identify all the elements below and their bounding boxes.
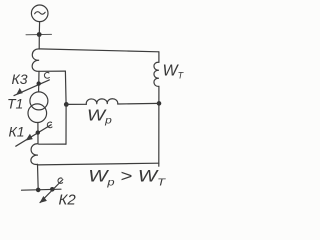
wire Wp right segment xyxy=(118,102,159,105)
inner branch top wire xyxy=(39,70,65,72)
bus bar terminal xyxy=(26,33,52,35)
switch K2 blade xyxy=(40,180,63,203)
K3 arrowhead xyxy=(16,88,22,94)
K2 arrowhead xyxy=(40,197,46,203)
junction dot bottom main xyxy=(36,188,41,193)
switch K1 blade xyxy=(16,125,51,147)
K2 hinge hook xyxy=(58,178,63,183)
bottom wire right to main xyxy=(38,163,159,165)
K1 hinge hook xyxy=(47,122,52,128)
AC source generator circle xyxy=(31,5,48,22)
junction dot inner Wp xyxy=(64,102,69,107)
svg-text:Т1: Т1 xyxy=(7,96,23,112)
junction dot bus xyxy=(37,32,42,37)
right wire down to coil xyxy=(158,52,160,63)
junction dot right Wp xyxy=(157,101,162,106)
K1 arrowhead xyxy=(26,134,32,140)
svg-text:Wp: Wp xyxy=(87,106,112,126)
wire T1 to K1 to winding xyxy=(37,123,39,144)
K3 hinge hook xyxy=(44,72,49,78)
switch K3 blade xyxy=(14,80,49,96)
wire source to bus xyxy=(38,22,40,35)
right wire coil to bottom corner xyxy=(158,86,160,166)
svg-text:К3: К3 xyxy=(12,71,28,87)
inner branch bottom wire xyxy=(39,143,66,145)
K1 junction dot xyxy=(36,130,40,134)
top branch wire to Wt xyxy=(39,49,159,52)
svg-text:К1: К1 xyxy=(9,123,25,139)
transformer T1 primary circle xyxy=(30,92,48,110)
wire Wp left segment xyxy=(66,103,86,105)
coil Wt (3 loops) xyxy=(154,62,159,86)
inner branch right wire xyxy=(64,71,67,144)
junction dot K2 xyxy=(50,187,55,192)
coil Wp (3 loops) xyxy=(86,99,118,105)
K3 junction dot xyxy=(37,81,41,85)
wire bus to winding xyxy=(38,35,40,50)
AC tilde inside source xyxy=(35,12,46,14)
wire winding to K3 to T1 xyxy=(38,71,40,92)
winding W1 on main line (2 loops) xyxy=(32,49,39,71)
svg-text:Wp > WT: Wp > WT xyxy=(88,166,166,188)
winding W2 on main line (2 loops) xyxy=(31,144,38,165)
bottom bar xyxy=(22,189,62,190)
svg-text:К2: К2 xyxy=(59,192,77,209)
transformer T1 secondary circle xyxy=(28,104,47,123)
svg-text:WT: WT xyxy=(163,63,185,81)
wire winding to bottom bar xyxy=(37,164,40,190)
